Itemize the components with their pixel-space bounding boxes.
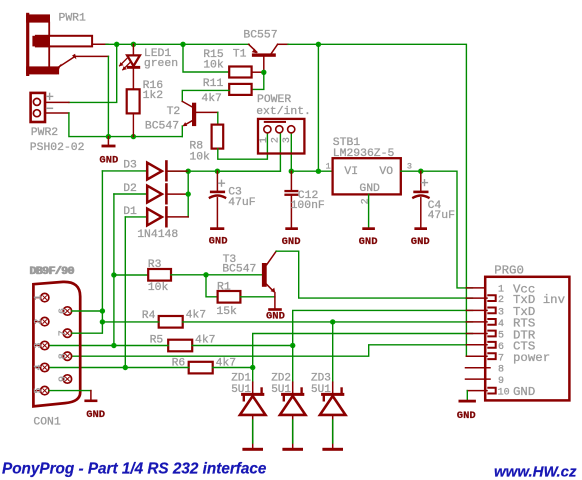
svg-text:PonyProg - Part 1/4 RS 232 int: PonyProg - Part 1/4 RS 232 interface bbox=[2, 461, 267, 478]
svg-text:GND: GND bbox=[457, 410, 476, 422]
wire RTS row DB9 to R4 bbox=[102, 321, 158, 323]
zener diode ZD1 bbox=[240, 382, 266, 451]
svg-text:GND: GND bbox=[282, 236, 301, 248]
pin 9 (CON1) bbox=[63, 375, 71, 383]
wire VI rail right segment to STB1 bbox=[291, 170, 332, 172]
svg-text:5: 5 bbox=[498, 331, 504, 342]
wire DTR row to PRG0 pin5 bbox=[253, 334, 473, 383]
junction diode chain (188.2,171.2) bbox=[186, 169, 191, 174]
ground symbol STB1 bbox=[362, 227, 375, 230]
wire DB9 pin6 to RTS column bbox=[72, 310, 103, 312]
svg-text:ZD3: ZD3 bbox=[311, 372, 331, 384]
wire R1 right to T3 emitter bbox=[240, 296, 275, 298]
pin 6 (CON1) bbox=[63, 307, 71, 315]
junction top wire at (318.4,44.3) bbox=[316, 42, 321, 47]
pin stub 7 with clip (PRG0) bbox=[466, 353, 495, 359]
svg-text:10k: 10k bbox=[189, 151, 210, 163]
wire POWER pin3 down to VI rail bbox=[290, 133, 292, 171]
svg-text:D1: D1 bbox=[123, 206, 137, 218]
svg-text:6: 6 bbox=[498, 342, 504, 353]
wire R4 right to PRG0 RTS bbox=[183, 321, 473, 323]
svg-text:8: 8 bbox=[498, 365, 504, 376]
svg-text:R1: R1 bbox=[217, 281, 231, 293]
wire D1 anode down to DTR column bbox=[124, 217, 126, 368]
capacitor C3 bbox=[210, 171, 225, 227]
wire DB9 pin4 to R6 bbox=[49, 367, 189, 369]
svg-text:3: 3 bbox=[498, 308, 504, 319]
connector PWR1 (DC power jack) bbox=[26, 14, 108, 74]
pin stub 6 with clip (PRG0) bbox=[466, 342, 495, 348]
junction GND row at (133.4,136.6) bbox=[131, 134, 136, 139]
resistor R15 bbox=[229, 67, 251, 78]
svg-text:PRG0: PRG0 bbox=[494, 263, 524, 277]
wire D2 anode down to TxD column bbox=[113, 194, 115, 346]
svg-text:1: 1 bbox=[259, 137, 270, 143]
wire T3 collector to PRG0 TxD inv bbox=[276, 251, 472, 298]
pin stub 3 with clip (PRG0) bbox=[466, 308, 495, 314]
wire PRG0 pin10 to ground bbox=[466, 391, 468, 400]
connector PWR2 bbox=[31, 93, 69, 122]
wire DB9 pin5 to ground bbox=[49, 390, 91, 392]
wire LED rail down to R15 left bbox=[183, 44, 229, 72]
label plus (C3) bbox=[219, 180, 225, 186]
wire R16 to GND row bbox=[132, 113, 134, 136]
svg-text:1: 1 bbox=[326, 162, 331, 172]
svg-text:green: green bbox=[144, 58, 178, 70]
wire R11 left to T2 base bbox=[182, 90, 229, 101]
svg-text:6: 6 bbox=[58, 308, 69, 314]
svg-text:POWER: POWER bbox=[257, 94, 291, 106]
svg-text:4: 4 bbox=[498, 319, 504, 330]
svg-text:R5: R5 bbox=[150, 334, 164, 346]
svg-text:3: 3 bbox=[282, 137, 293, 143]
wire R6 right to ZD1 riser bbox=[213, 367, 253, 369]
resistor R1 bbox=[218, 291, 241, 303]
capacitor C12 bbox=[284, 171, 298, 227]
wire down from top rail to VI rail bbox=[317, 44, 319, 171]
wire diode chain vertical bbox=[187, 171, 189, 217]
svg-text:T1: T1 bbox=[233, 49, 247, 61]
ground symbol T3 emitter bbox=[268, 308, 282, 311]
svg-text:ZD2: ZD2 bbox=[271, 372, 291, 384]
ground symbol PRG0 pin10 bbox=[459, 400, 476, 403]
svg-text:4k7: 4k7 bbox=[186, 309, 207, 321]
wire R5 right to ZD2 riser bbox=[192, 345, 293, 347]
junction R3 tap on TxD column (113.9,275) bbox=[111, 272, 116, 277]
resistor R8 bbox=[212, 125, 224, 149]
svg-text:R4: R4 bbox=[142, 310, 156, 322]
junction T1 base node (263.8,72.3) bbox=[261, 70, 266, 75]
connector CON1 DB9 shell bbox=[33, 282, 80, 407]
capacitor C4 bbox=[413, 171, 428, 227]
wire TxD row DB9 pin3 to R5 bbox=[49, 345, 168, 347]
svg-text:GND: GND bbox=[86, 409, 105, 421]
svg-text:DB9F/90: DB9F/90 bbox=[30, 266, 75, 278]
svg-text:100nF: 100nF bbox=[291, 200, 325, 212]
label PWR2 minus bbox=[47, 107, 53, 109]
resistor R5 bbox=[168, 340, 192, 352]
voltage regulator STB1 LM2936Z-5 bbox=[333, 158, 401, 194]
pin stub 2 with clip (PRG0) bbox=[466, 295, 495, 301]
svg-text:GND: GND bbox=[209, 235, 228, 247]
pin 2 (CON1) bbox=[33, 317, 49, 325]
svg-text:47uF: 47uF bbox=[428, 210, 456, 222]
pin stub 1 (PRG0) bbox=[466, 287, 484, 289]
svg-text:8: 8 bbox=[58, 353, 69, 359]
svg-text:5U1: 5U1 bbox=[271, 384, 291, 396]
wire R15 right to T1 collector node bbox=[252, 71, 264, 73]
svg-text:5: 5 bbox=[34, 388, 45, 394]
svg-text:1: 1 bbox=[498, 285, 504, 296]
wire TxD column to R3 bbox=[114, 274, 148, 276]
svg-text:www.HW.cz: www.HW.cz bbox=[494, 464, 577, 480]
svg-text:7: 7 bbox=[498, 353, 504, 364]
wire POWER pin2 to int rail bbox=[217, 133, 280, 171]
wire top loop T1 collector to PRG0 power pin bbox=[288, 44, 473, 356]
svg-text:9: 9 bbox=[58, 376, 69, 382]
svg-text:GND: GND bbox=[513, 385, 535, 399]
svg-text:1N4148: 1N4148 bbox=[137, 229, 178, 241]
svg-text:GND: GND bbox=[266, 311, 285, 323]
junction D2 cathode (188.2,194.1) bbox=[186, 191, 191, 196]
wire vcc down to PWR2 plus row bbox=[69, 44, 117, 102]
label DB9F/90 bbox=[29, 266, 75, 278]
junction C4 (420.8,171.2) bbox=[418, 169, 423, 174]
svg-text:10: 10 bbox=[498, 387, 510, 398]
svg-text:R3: R3 bbox=[148, 259, 162, 271]
svg-text:PWR1: PWR1 bbox=[59, 13, 87, 25]
label PWR2 plus bbox=[47, 93, 53, 99]
svg-text:1k2: 1k2 bbox=[143, 90, 164, 102]
wire T2 collector down to R8 bbox=[217, 112, 219, 124]
svg-text:2: 2 bbox=[498, 295, 504, 306]
resistor R16 bbox=[127, 89, 140, 113]
junction D2 column on TxD row (113.9,345.5) bbox=[111, 343, 116, 348]
wire T1 base node down to R11 right bbox=[252, 72, 264, 89]
junction at (116.5,44.3) bbox=[114, 42, 119, 47]
svg-text:ZD1: ZD1 bbox=[231, 372, 251, 384]
svg-text:4k7: 4k7 bbox=[201, 93, 222, 105]
transistor T3 BC547 bbox=[262, 251, 276, 308]
junction RTS column (102.4,321.9) bbox=[100, 319, 105, 324]
transistor T1 BC557 bbox=[249, 44, 288, 72]
wire ZD3 riser bbox=[332, 322, 334, 382]
label plus (C4) bbox=[422, 180, 428, 186]
transistor T2 BC547 bbox=[182, 101, 218, 126]
svg-text:2: 2 bbox=[34, 319, 45, 325]
LED LED1 bbox=[119, 44, 140, 89]
svg-text:BC557: BC557 bbox=[243, 30, 277, 42]
wire PWR1 sleeve down to GND row bbox=[107, 56, 109, 136]
svg-text:VI: VI bbox=[344, 166, 358, 178]
wire DB9 pin7 up to RTS row bbox=[72, 322, 103, 333]
connector PRG0 box bbox=[485, 277, 569, 401]
wire PWR2 minus to GND row bbox=[69, 113, 182, 137]
junction D1 column (125.3,367.5) bbox=[123, 365, 128, 370]
wire STB1 GND pin down bbox=[368, 194, 370, 227]
pin stub 9 (PRG0) bbox=[466, 378, 491, 380]
svg-text:R11: R11 bbox=[203, 78, 224, 90]
diode D1 bbox=[125, 208, 188, 227]
resistor R4 bbox=[159, 316, 183, 328]
svg-text:9: 9 bbox=[498, 376, 504, 387]
wire R3 right to T3 base bbox=[171, 274, 262, 276]
connector POWER ext/int bbox=[258, 119, 304, 154]
resistor R6 bbox=[189, 362, 213, 374]
wire R8 bottom to POWER pin1 bbox=[218, 133, 268, 159]
svg-text:2: 2 bbox=[361, 198, 372, 204]
resistor R11 bbox=[229, 84, 251, 95]
svg-text:4k7: 4k7 bbox=[195, 334, 216, 346]
wire ZD2 riser lower bbox=[292, 346, 294, 383]
junction R6 tap (252.7,367.5) bbox=[250, 365, 255, 370]
svg-text:5U1: 5U1 bbox=[311, 384, 331, 396]
ground symbol C12 bbox=[285, 227, 298, 230]
resistor R3 bbox=[148, 269, 171, 281]
pin stub 5 with clip (PRG0) bbox=[466, 331, 495, 337]
junction at (183,44.3) bbox=[180, 42, 185, 47]
svg-text:3: 3 bbox=[34, 342, 45, 348]
svg-text:7: 7 bbox=[58, 330, 69, 336]
svg-text:LM2936Z-5: LM2936Z-5 bbox=[333, 148, 395, 160]
zener diode ZD2 bbox=[280, 382, 306, 451]
svg-text:VO: VO bbox=[379, 166, 393, 178]
junction at (133.3,44.3) bbox=[131, 42, 136, 47]
diode D2 bbox=[114, 185, 188, 204]
wire PWR1 pin to LED/T1 rail (y=44.3) bbox=[106, 43, 249, 45]
wire D3 anode down to DB9 pin6 column bbox=[101, 171, 103, 322]
junction C3 top (217.4,171.2) bbox=[215, 169, 220, 174]
svg-text:GND: GND bbox=[359, 183, 380, 195]
junction C12 top (291.3,171.2) bbox=[289, 169, 294, 174]
ground symbol C4 bbox=[414, 227, 427, 230]
junction GND row at (108.4,136.6) bbox=[106, 134, 111, 139]
junction STB1 input riser (318.4,171.2) bbox=[316, 169, 321, 174]
diode D3 bbox=[102, 162, 188, 181]
svg-text:15k: 15k bbox=[216, 306, 237, 318]
junction pin6 (102.4,311) bbox=[100, 308, 105, 313]
pin 7 (CON1) bbox=[63, 329, 71, 337]
svg-text:ext/int.: ext/int. bbox=[256, 106, 311, 118]
junction ZD2 tap (292.7,345.5) bbox=[290, 343, 295, 348]
pin stub 4 with clip (PRG0) bbox=[466, 319, 495, 325]
svg-text:BC547: BC547 bbox=[222, 264, 256, 276]
wire junction down to R1 left bbox=[206, 275, 218, 297]
ground symbol C3 bbox=[210, 227, 224, 230]
svg-text:1: 1 bbox=[34, 295, 45, 301]
svg-text:2: 2 bbox=[271, 137, 282, 143]
wire TxD row from ZD2 riser to PRG0 pin3 bbox=[293, 310, 473, 345]
svg-text:10k: 10k bbox=[148, 282, 169, 294]
pin 1 (CON1) bbox=[33, 293, 49, 301]
ground symbol under PWR2 row bbox=[102, 137, 116, 148]
ground symbol CON1 pin5 bbox=[84, 391, 97, 403]
svg-text:PWR2: PWR2 bbox=[31, 127, 59, 139]
pin 5 (CON1) bbox=[33, 386, 49, 394]
wire CTS row DB9 pin8 to PRG0 pin6 with jog bbox=[72, 345, 473, 356]
zener diode ZD3 bbox=[320, 382, 346, 451]
junction R1 tap (206,274.8) bbox=[203, 272, 208, 277]
svg-text:5U1: 5U1 bbox=[231, 384, 251, 396]
svg-text:PSH02-02: PSH02-02 bbox=[30, 142, 85, 154]
pin 3 (CON1) bbox=[33, 341, 49, 349]
svg-text:CON1: CON1 bbox=[33, 417, 61, 429]
pin stub 10 with clip (PRG0) bbox=[467, 388, 495, 394]
svg-text:BC547: BC547 bbox=[145, 121, 179, 133]
pin 4 (CON1) bbox=[33, 363, 49, 371]
svg-text:47uF: 47uF bbox=[228, 197, 256, 209]
svg-text:GND: GND bbox=[411, 236, 430, 248]
svg-text:GND: GND bbox=[359, 236, 378, 248]
svg-text:GND: GND bbox=[99, 155, 118, 167]
pin stub 8 (PRG0) bbox=[466, 367, 491, 369]
svg-text:10k: 10k bbox=[203, 60, 224, 72]
wire STB1 VO to C4 and PRG0 Vcc bbox=[401, 171, 473, 288]
svg-text:power: power bbox=[513, 351, 550, 365]
wire T2 emitter to GND row bbox=[181, 126, 183, 137]
pin 8 (CON1) bbox=[63, 352, 71, 360]
svg-text:4: 4 bbox=[34, 364, 45, 370]
svg-text:T2: T2 bbox=[167, 106, 181, 118]
svg-text:D2: D2 bbox=[123, 183, 137, 195]
svg-text:D3: D3 bbox=[123, 160, 137, 172]
svg-text:3: 3 bbox=[407, 162, 412, 172]
wire VI rail left segment (diodes to POWER pin2 riser) bbox=[166, 170, 280, 172]
junction ZD3 tap (332.7,321.9) bbox=[330, 319, 335, 324]
